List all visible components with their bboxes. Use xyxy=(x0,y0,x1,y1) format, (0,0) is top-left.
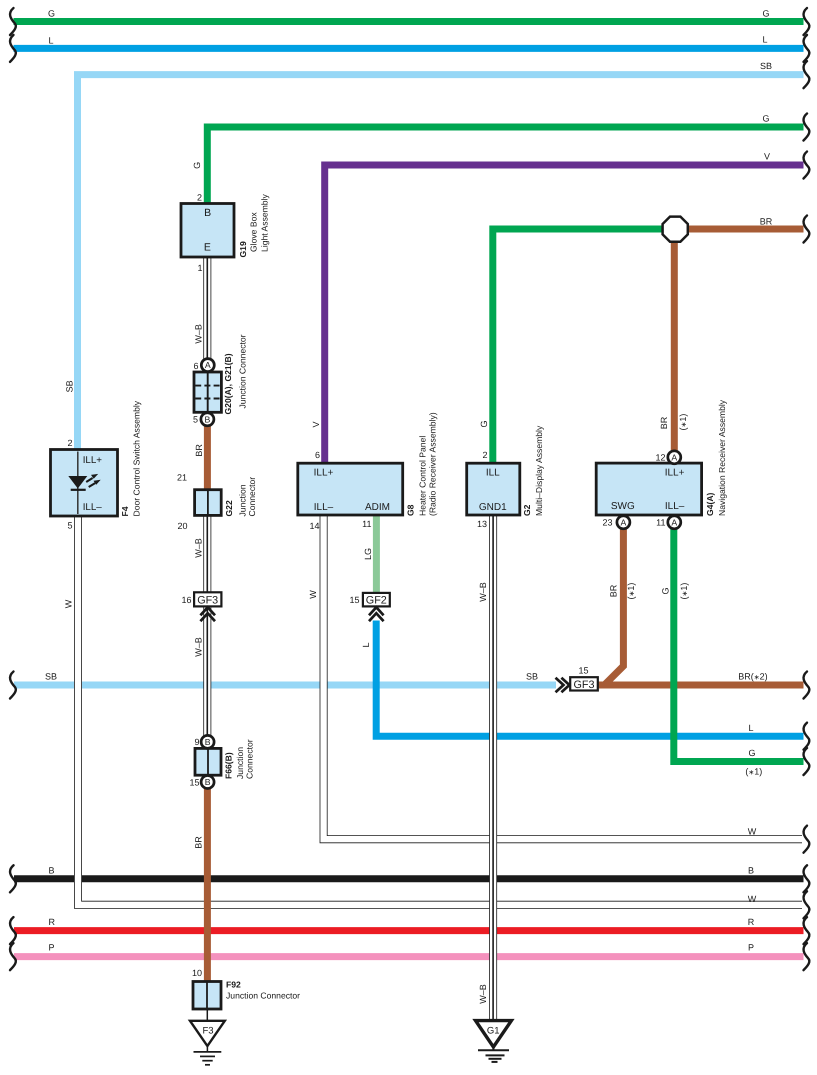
svg-text:W: W xyxy=(748,826,757,836)
wire BR wire G20 circle B to G22 xyxy=(204,425,211,491)
break symbol (G right) xyxy=(804,114,810,141)
internal line (F66) xyxy=(207,749,209,774)
svg-text:A: A xyxy=(621,517,627,527)
svg-text:Heater Control Panel: Heater Control Panel xyxy=(418,436,428,516)
wire G wire octagon to G2 xyxy=(493,229,676,464)
break symbol (V right) xyxy=(804,152,810,179)
svg-text:F3: F3 xyxy=(202,1025,213,1036)
svg-text:BR: BR xyxy=(760,217,773,227)
svg-text:Junction: Junction xyxy=(235,747,245,779)
svg-text:Junction Connector: Junction Connector xyxy=(226,991,300,1001)
svg-text:15: 15 xyxy=(578,666,588,676)
svg-text:W–B: W–B xyxy=(478,582,488,602)
svg-text:V: V xyxy=(764,151,770,161)
terminal circle B (F66 pin 9) xyxy=(201,735,214,748)
wire W-B from G19 pin 1 to G20 circle A xyxy=(203,256,211,359)
svg-text:11: 11 xyxy=(362,519,371,529)
svg-text:ILL+: ILL+ xyxy=(665,468,685,479)
svg-text:5: 5 xyxy=(193,415,198,425)
svg-text:9: 9 xyxy=(194,737,199,747)
break symbol (L bus left) xyxy=(10,35,16,62)
svg-text:16: 16 xyxy=(181,595,191,605)
svg-text:A: A xyxy=(205,360,211,370)
svg-text:SB: SB xyxy=(526,671,538,681)
svg-text:P: P xyxy=(748,943,754,953)
terminal circle B (G21 pin 5) xyxy=(201,413,214,426)
svg-text:G2: G2 xyxy=(522,504,532,516)
svg-text:Junction: Junction xyxy=(238,484,248,516)
svg-text:L: L xyxy=(748,723,753,733)
chevron connector-arrow (left of GF3) xyxy=(556,678,570,693)
svg-text:B: B xyxy=(205,737,211,747)
svg-text:G20(A), G21(B): G20(A), G21(B) xyxy=(223,353,233,414)
break symbol (SB right) xyxy=(804,61,810,88)
svg-text:Multi–Display Assembly: Multi–Display Assembly xyxy=(534,425,544,516)
svg-text:(∗1): (∗1) xyxy=(626,583,636,600)
wire G(*1) wire from G4 pin 11 to right xyxy=(674,528,804,762)
svg-text:15: 15 xyxy=(189,777,199,787)
svg-text:GND1: GND1 xyxy=(479,502,507,513)
svg-text:G: G xyxy=(660,587,670,594)
wire BR(*2) wire xyxy=(598,682,804,689)
chevron connector-arrow (below GF2) xyxy=(369,607,384,621)
svg-text:W–B: W–B xyxy=(193,324,203,344)
svg-text:W–B: W–B xyxy=(193,538,203,558)
ground symbol G1 xyxy=(476,1021,512,1062)
svg-text:2: 2 xyxy=(482,450,487,460)
break symbol (B bus right) xyxy=(804,865,810,892)
svg-text:BR: BR xyxy=(609,584,619,597)
svg-text:(Radio Receiver Assembly): (Radio Receiver Assembly) xyxy=(428,412,438,516)
svg-text:W–B: W–B xyxy=(478,984,488,1004)
wire BR wire octagon to G4 pin 12 xyxy=(671,229,678,452)
wire G bus (top) xyxy=(14,18,804,25)
svg-text:GF3: GF3 xyxy=(574,679,595,691)
svg-text:SWG: SWG xyxy=(611,501,635,512)
svg-text:R: R xyxy=(748,917,755,927)
break symbol (SB bus left) xyxy=(10,672,16,699)
svg-text:SB: SB xyxy=(760,61,772,71)
svg-text:G4(A): G4(A) xyxy=(705,492,715,516)
break symbol (G bus left) xyxy=(10,8,16,35)
svg-text:A: A xyxy=(671,517,677,527)
LED symbol (F4) xyxy=(68,474,100,491)
break symbol (G(*1) right) xyxy=(804,748,810,775)
svg-text:ILL–: ILL– xyxy=(314,502,334,513)
svg-text:A: A xyxy=(671,452,677,462)
svg-text:BR: BR xyxy=(193,836,203,849)
svg-text:5: 5 xyxy=(67,520,72,530)
break symbol (B bus left) xyxy=(10,865,16,892)
svg-text:G: G xyxy=(192,162,202,169)
junction connector F66(B) xyxy=(195,748,221,775)
svg-text:G: G xyxy=(479,420,489,427)
svg-text:E: E xyxy=(204,242,211,254)
wire L wire from GF2 to right xyxy=(376,621,803,737)
internal lines (G20/G21) xyxy=(195,373,220,411)
svg-text:GF3: GF3 xyxy=(197,595,218,607)
svg-text:10: 10 xyxy=(192,968,202,978)
svg-text:14: 14 xyxy=(309,521,319,531)
wire BR wire F66 to F92 xyxy=(204,788,211,983)
wire R bus xyxy=(14,927,804,934)
octagon splice junction xyxy=(663,217,688,242)
connector GF3 (pin 15) xyxy=(570,677,598,690)
svg-text:Glove Box: Glove Box xyxy=(249,212,259,252)
svg-text:12: 12 xyxy=(655,452,665,462)
svg-text:ILL+: ILL+ xyxy=(314,468,334,479)
terminal circle A (G4 pin 11) xyxy=(668,516,681,529)
break symbol (R bus right) xyxy=(804,917,810,944)
break symbol (P bus right) xyxy=(804,943,810,970)
svg-text:2: 2 xyxy=(67,438,72,448)
svg-text:BR(∗2): BR(∗2) xyxy=(738,672,767,682)
wire B bus xyxy=(14,875,804,882)
svg-text:L: L xyxy=(49,35,54,45)
wire P bus xyxy=(14,953,804,960)
junction connector G20(A) G21(B) xyxy=(194,372,221,412)
break symbol (P bus left) xyxy=(10,943,16,970)
svg-text:B: B xyxy=(204,207,211,219)
svg-text:P: P xyxy=(49,943,55,953)
svg-text:GF2: GF2 xyxy=(366,595,387,607)
break symbol (W right) xyxy=(804,826,810,853)
junction connector G22 xyxy=(195,490,222,516)
wire BR(*1) wire from G4 pin 23 xyxy=(605,528,624,685)
svg-text:ADIM: ADIM xyxy=(365,502,390,513)
svg-text:ILL+: ILL+ xyxy=(83,455,103,466)
terminal circle A (G4 pin 23) xyxy=(617,516,630,529)
svg-text:W: W xyxy=(308,590,318,599)
svg-text:(∗1): (∗1) xyxy=(678,414,688,431)
svg-text:Light Assembly: Light Assembly xyxy=(260,193,270,252)
break symbol (L right) xyxy=(804,723,810,750)
svg-text:SB: SB xyxy=(64,380,74,392)
break symbol (L bus right) xyxy=(804,35,810,62)
svg-text:G: G xyxy=(762,113,769,123)
svg-text:(∗1): (∗1) xyxy=(679,583,689,600)
ground symbol F3 xyxy=(190,1021,225,1065)
svg-text:Connector: Connector xyxy=(245,739,255,779)
terminal circle A (G20 pin 6) xyxy=(201,359,214,372)
svg-text:ILL–: ILL– xyxy=(665,501,685,512)
svg-text:G1: G1 xyxy=(487,1025,500,1036)
wire W from G8 pin 14 to right edge xyxy=(324,514,802,839)
svg-text:G19: G19 xyxy=(238,241,248,257)
svg-text:2: 2 xyxy=(197,193,202,203)
svg-text:ILL: ILL xyxy=(486,468,500,479)
svg-text:B: B xyxy=(49,866,55,876)
wire W-B from G2 pin 13 to ground G1 xyxy=(489,514,497,1020)
svg-text:G: G xyxy=(762,8,769,18)
svg-text:1: 1 xyxy=(197,263,202,273)
svg-text:B: B xyxy=(205,777,211,787)
break symbol (BR(*2) right) xyxy=(804,672,810,699)
svg-text:13: 13 xyxy=(477,519,487,529)
break symbol (R bus left) xyxy=(10,917,16,944)
svg-text:W: W xyxy=(748,894,757,904)
svg-text:R: R xyxy=(49,917,56,927)
svg-text:B: B xyxy=(748,866,754,876)
wire L bus xyxy=(14,45,804,52)
svg-text:LG: LG xyxy=(363,548,373,560)
svg-text:BR: BR xyxy=(659,416,669,429)
wire F92 to ground F3 xyxy=(206,1009,208,1021)
wire SB bus (middle) xyxy=(14,682,556,689)
connector GF2 (pin 15) xyxy=(363,593,390,607)
svg-text:SB: SB xyxy=(45,671,57,681)
svg-text:(∗1): (∗1) xyxy=(745,767,762,777)
svg-text:G22: G22 xyxy=(224,500,234,516)
svg-text:23: 23 xyxy=(602,518,612,528)
svg-text:BR: BR xyxy=(194,444,204,457)
svg-text:20: 20 xyxy=(177,521,187,531)
wire LG wire G8 pin 11 to GF2 xyxy=(373,514,380,594)
connector box G4(A) Navigation Receiver Assembly xyxy=(596,463,701,515)
svg-text:F66(B): F66(B) xyxy=(224,752,234,779)
wire W from F4 pin 5 to right edge xyxy=(78,515,802,905)
svg-text:Door Control Switch Assembly: Door Control Switch Assembly xyxy=(132,400,142,516)
wire G wire to G19 xyxy=(207,127,803,205)
svg-text:B: B xyxy=(205,414,211,424)
connector box G19 Glove Box Light Assembly xyxy=(181,204,234,258)
junction connector F92 xyxy=(193,982,221,1010)
svg-text:V: V xyxy=(311,421,321,427)
svg-text:11: 11 xyxy=(656,518,665,528)
svg-text:Navigation Receiver Assembly: Navigation Receiver Assembly xyxy=(717,399,727,516)
wire SB wire to F4 xyxy=(78,75,804,451)
break symbol (BR right) xyxy=(804,216,810,243)
wire V wire to G8 xyxy=(325,165,804,464)
svg-text:ILL–: ILL– xyxy=(83,502,103,513)
svg-text:Junction Connector: Junction Connector xyxy=(238,334,248,408)
chevron connector-arrow (below GF3) xyxy=(200,607,215,621)
connector box G8 Heater Control Panel xyxy=(298,463,403,515)
svg-text:F4: F4 xyxy=(120,506,130,516)
svg-text:21: 21 xyxy=(177,473,187,483)
internal line (G22) xyxy=(207,491,209,515)
internal wire line (F4) xyxy=(77,452,79,515)
svg-text:6: 6 xyxy=(315,450,320,460)
wire W-B from G22 pin 20 to F66 circle B xyxy=(203,514,211,736)
svg-text:W–B: W–B xyxy=(193,637,203,657)
internal line (F92) xyxy=(206,983,208,1009)
svg-text:L: L xyxy=(361,642,371,647)
svg-text:15: 15 xyxy=(349,595,359,605)
svg-text:L: L xyxy=(762,35,767,45)
break symbol (W right lower) xyxy=(804,891,810,918)
svg-text:F92: F92 xyxy=(226,980,241,990)
wire BR wire octagon to right xyxy=(674,226,804,233)
svg-text:G: G xyxy=(48,8,55,18)
svg-text:6: 6 xyxy=(193,361,198,371)
connector box F4 Door Control Switch Assembly xyxy=(51,450,118,517)
terminal circle B (F66 pin 15) xyxy=(201,776,214,789)
svg-text:G8: G8 xyxy=(406,504,416,516)
connector GF3 (pin 16) xyxy=(194,592,221,606)
break symbol (G bus right) xyxy=(804,8,810,35)
svg-text:Connector: Connector xyxy=(247,477,257,517)
terminal circle A (G4 pin 12) xyxy=(668,451,681,464)
svg-text:W: W xyxy=(64,599,74,608)
connector box G2 Multi-Display Assembly xyxy=(467,463,520,515)
svg-text:G: G xyxy=(748,748,755,758)
